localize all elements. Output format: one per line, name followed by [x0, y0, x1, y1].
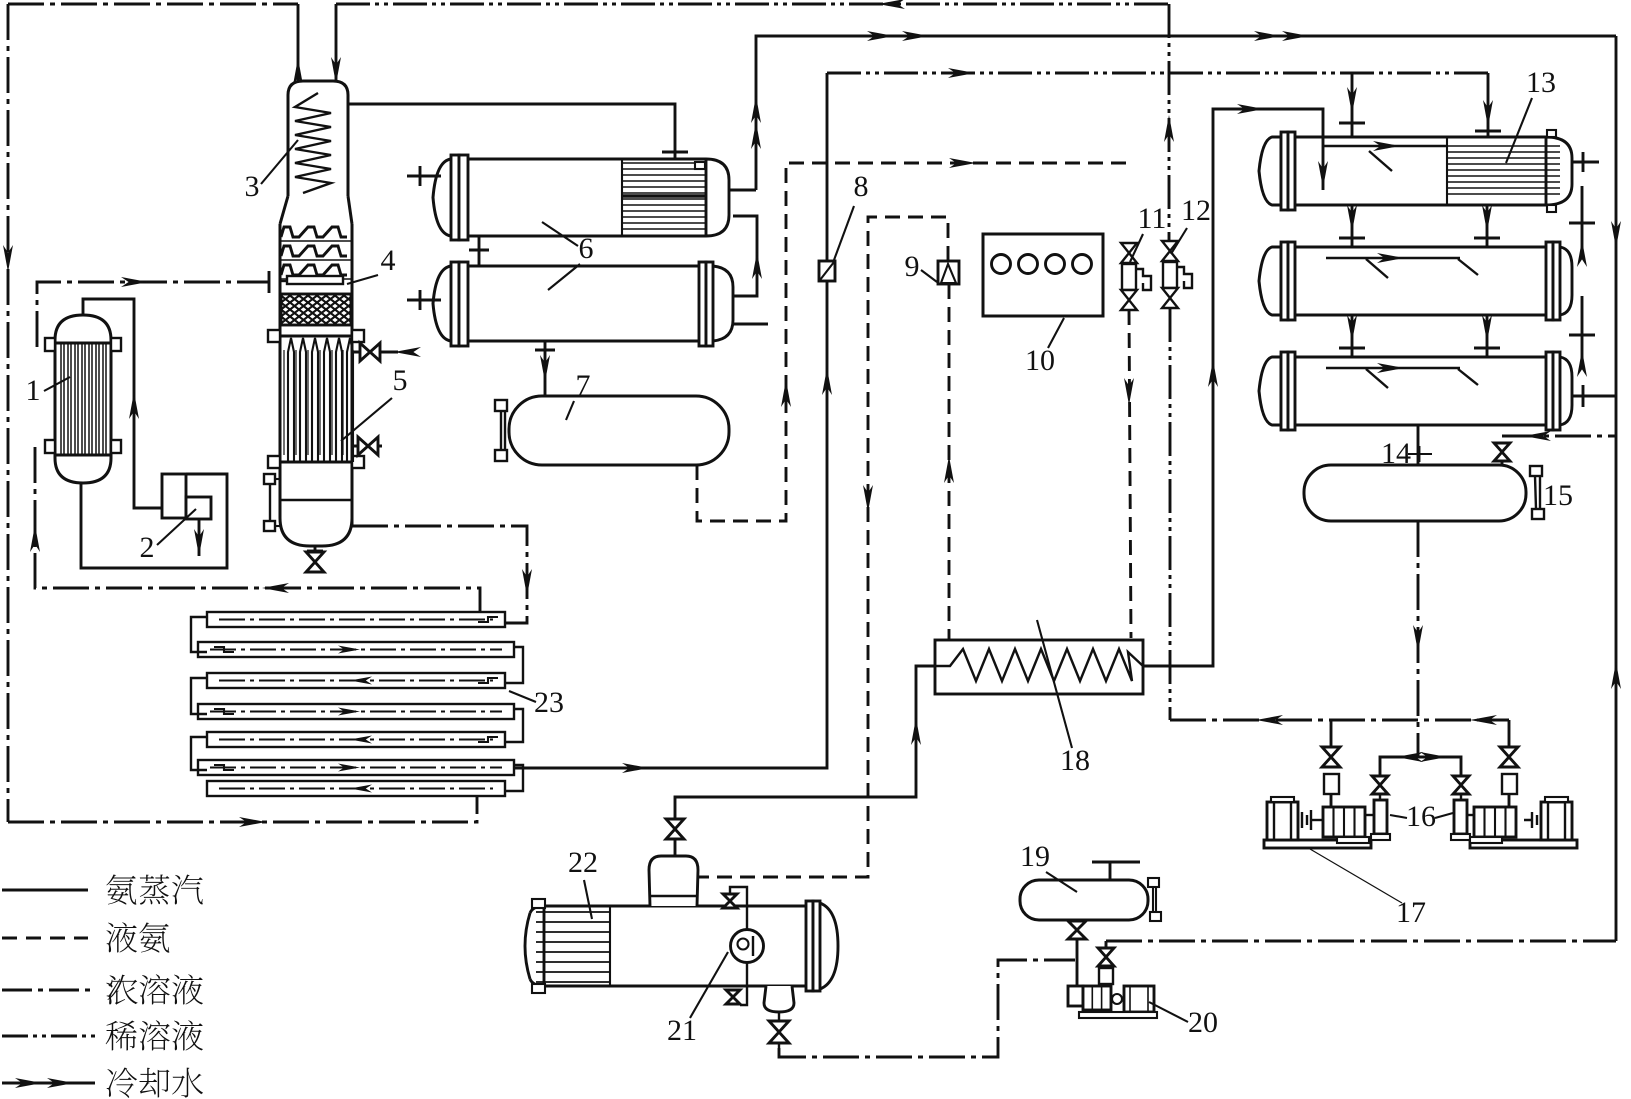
- wire: liquid ammonia 11 drop to 18: [1124, 310, 1134, 638]
- label 10: [1025, 318, 1064, 377]
- svg-text:7: 7: [576, 369, 591, 402]
- label 4: [347, 244, 396, 284]
- heat exchanger 13 row 2: [1259, 242, 1572, 320]
- wire: inter-row pipe x1352 row2-row3: [1339, 315, 1365, 357]
- label 22: [568, 846, 598, 919]
- wire: column bottoms to 23: [352, 526, 532, 623]
- ammonia receiver tank 7: [495, 396, 729, 465]
- legend line: dilute solution: [2, 1035, 95, 1038]
- internal circulator 21: [723, 887, 764, 1005]
- wire: pump suction/dilute header: [1170, 715, 1509, 725]
- svg-text:11: 11: [1138, 202, 1167, 235]
- ejector 2 box A: [162, 474, 186, 518]
- level gauge 15: [1530, 466, 1544, 519]
- pump unit 16/17 (left): [1264, 797, 1390, 848]
- wire: exchanger 13 row3 outlet to right border: [1573, 385, 1616, 407]
- svg-text:6: 6: [579, 232, 594, 265]
- valve above dome 22: [666, 819, 684, 856]
- label 2: [140, 509, 197, 564]
- wire: pump suction header: [1380, 752, 1461, 795]
- legend text: concentrated solution: [106, 974, 203, 1005]
- heat exchanger 13 row 1: [1259, 130, 1599, 212]
- column bottom liquid line: [281, 499, 351, 501]
- wire: exchanger 6 row2 right stub: [733, 323, 768, 326]
- plate economizer 23: [191, 612, 523, 796]
- column feed valve (upper right): [352, 343, 421, 361]
- falling-film tubes in column (element 5): [268, 330, 364, 468]
- wire: column to exchanger 6 vapor line: [348, 104, 688, 160]
- heat exchanger vessel 1: [45, 315, 121, 483]
- exchanger 6 row2 to tank 7 drop: [535, 341, 555, 396]
- column body (absorber-evaporator tower): [280, 81, 352, 546]
- heat exchanger 6 row 2: [433, 262, 733, 346]
- svg-text:19: 19: [1020, 840, 1050, 873]
- column bottom valve: [306, 546, 324, 572]
- label 1: [26, 374, 71, 407]
- label 8: [834, 170, 869, 260]
- wire: exchanger 13 row3 to tank 14: [1417, 425, 1420, 465]
- legend line: ammonia vapor: [2, 889, 88, 892]
- label 3: [245, 140, 299, 203]
- label 7: [566, 369, 591, 420]
- wire: top-left line to column top: [8, 3, 298, 6]
- wire: ejector 2 enclosure: [81, 473, 227, 568]
- legend line: liquid ammonia: [2, 937, 88, 940]
- flash tank 19 with vent and gauge: [1020, 862, 1161, 921]
- wire: right border cooling water / solution line: [1611, 36, 1621, 941]
- heat exchanger 6 row 1: [433, 155, 729, 240]
- wire: cooling water main (top): [729, 31, 1616, 190]
- svg-text:5: 5: [393, 364, 408, 397]
- label 17: [1310, 849, 1426, 929]
- wire: branch down into exchanger 13 row1 (left): [1339, 73, 1365, 137]
- coil in column top (element 3): [295, 93, 331, 193]
- svg-text:18: 18: [1060, 744, 1090, 777]
- label 15: [1543, 479, 1573, 512]
- valve above tank 14: [1494, 443, 1510, 465]
- pump 20 discharge valves: [1098, 941, 1114, 984]
- liquid tank 14: [1304, 465, 1526, 521]
- svg-text:10: 10: [1025, 344, 1055, 377]
- wire: dilute solution line 23-to-13 (via valve 8): [505, 68, 1488, 773]
- wire: liquid ammonia 9-network to vessel 22 dome: [698, 217, 948, 877]
- valve under tank 19: [1068, 921, 1086, 939]
- wire: dilute solution main riser (valve 12 line): [1164, 4, 1174, 241]
- expansion valve 11: [1121, 243, 1151, 310]
- wire: inter-row pipe x1487 row2-row3: [1474, 315, 1500, 357]
- wire: left border (concentrated solution): [3, 4, 13, 822]
- label 16: [1390, 800, 1453, 833]
- wire: liquid ammonia 9 to 18 (left): [944, 284, 954, 640]
- wire: dilute solution top line: [336, 0, 1169, 9]
- svg-text:21: 21: [667, 1014, 697, 1047]
- wire: liquid ammonia line 7-to-11: [697, 158, 1128, 521]
- svg-text:23: 23: [534, 686, 564, 719]
- wire: corner down into exchanger 13 row1 (right): [1475, 73, 1501, 137]
- wire: inter-row pipe x1352 row1-row2: [1339, 205, 1365, 247]
- column level gauge: [264, 474, 281, 531]
- solenoid valve 8: [819, 261, 835, 281]
- label 14: [1381, 437, 1432, 470]
- label 21: [667, 952, 728, 1047]
- svg-text:8: 8: [854, 170, 869, 203]
- right pump suction valve: [1453, 776, 1469, 800]
- label 23: [509, 686, 564, 719]
- svg-text:12: 12: [1181, 194, 1211, 227]
- svg-text:2: 2: [140, 531, 155, 564]
- wire: column top vapor riser: [293, 4, 303, 85]
- label 6: [542, 222, 594, 290]
- pump unit 16 (right): [1451, 797, 1577, 848]
- left pump suction valve: [1372, 776, 1388, 800]
- svg-text:16: 16: [1406, 800, 1436, 833]
- legend text: dilute solution: [106, 1020, 203, 1050]
- exchanger 6 row2 left stub: [407, 290, 441, 310]
- svg-text:9: 9: [905, 250, 920, 283]
- wire: feed line to column tray (node): [37, 271, 269, 347]
- wire: exchanger 6 row1-row2 right connector: [733, 216, 762, 296]
- label 9: [905, 250, 938, 283]
- wire: concentrated solution to valve above tank 14: [1502, 431, 1616, 441]
- wire: valve 12 line down to suction header: [1169, 308, 1172, 720]
- wire: ammonia vapor 18 to exchangers 13: [1143, 104, 1328, 666]
- expansion valve 12: [1162, 241, 1192, 308]
- label 20: [1149, 1002, 1218, 1039]
- svg-text:1: 1: [26, 374, 41, 407]
- svg-text:4: 4: [381, 244, 396, 277]
- evaporator coil box 18: [935, 640, 1143, 694]
- label 19: [1020, 840, 1077, 892]
- wire: column top return downcomer: [331, 4, 341, 84]
- label 13: [1506, 66, 1556, 163]
- wire: bottom concentrated solution line (pump 20 to right border): [1106, 940, 1616, 943]
- svg-text:22: 22: [568, 846, 598, 879]
- wire: right exchangers row2-row3 right riser: [1569, 296, 1595, 377]
- bottom boot and drain valve of 22: [764, 986, 794, 1048]
- label 12: [1171, 194, 1211, 254]
- wire: vessel1 to ejector 2 loop: [83, 299, 161, 508]
- legend text: cooling water: [107, 1068, 203, 1098]
- corrugated plate section in column: [281, 227, 351, 279]
- wire: right exchangers row1-row2 right riser: [1569, 186, 1595, 267]
- legend line: concentrated solution: [2, 989, 92, 992]
- label 5: [341, 364, 408, 441]
- wire: tank 14 drain to pumps: [1413, 521, 1423, 757]
- label 18: [1037, 620, 1090, 777]
- svg-text:15: 15: [1543, 479, 1573, 512]
- exchanger 6 rows left connector: [469, 236, 489, 266]
- wire: tank 19 drain to pump 20 suction: [1076, 939, 1079, 987]
- ejector 2 box B: [186, 497, 211, 519]
- absorber vessel 22: [525, 899, 838, 993]
- wire: strong solution 23 top feed: [30, 447, 480, 612]
- svg-text:17: 17: [1396, 896, 1426, 929]
- wire: bottom-left line to economizer 23: [8, 796, 477, 827]
- wire: inter-row pipe x1487 row1-row2: [1474, 205, 1500, 247]
- right pump discharge valves: [1500, 720, 1518, 807]
- label 11: [1130, 202, 1166, 262]
- solenoid valve 9: [938, 261, 959, 284]
- left pump discharge valves: [1322, 720, 1340, 807]
- wire: ejector 2 outlet arrow: [194, 519, 204, 556]
- dome on vessel 22: [649, 856, 698, 906]
- svg-text:20: 20: [1188, 1006, 1218, 1039]
- legend text: liquid ammonia: [106, 922, 169, 952]
- packing section (crosshatch): [225, 294, 400, 325]
- wire: 22 bottom drain line to pump 20: [779, 960, 1075, 1057]
- legend text: ammonia vapor: [106, 874, 202, 904]
- wire: 22 dome valve line to 18 inlet: [675, 666, 935, 819]
- exchanger 6 row1 left stub: [407, 166, 441, 186]
- distributor tray (element 4): [280, 276, 343, 284]
- pump 20: [1068, 986, 1157, 1018]
- svg-text:14: 14: [1381, 437, 1411, 470]
- legend line: cooling water: [2, 1078, 95, 1088]
- column side valve (lower right): [352, 437, 382, 455]
- heat exchanger 13 row 3: [1259, 352, 1572, 430]
- wire: pump 20 discharge: [1105, 941, 1108, 971]
- control panel 10: [983, 234, 1103, 316]
- svg-text:13: 13: [1526, 66, 1556, 99]
- svg-text:3: 3: [245, 170, 260, 203]
